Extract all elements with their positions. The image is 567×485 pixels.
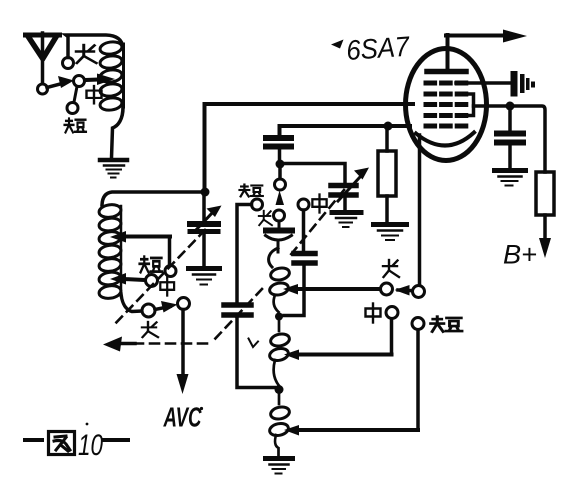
wire J1 to coil L2 top xyxy=(102,192,205,205)
wire S1a arm to 短 contact xyxy=(74,87,77,103)
U1 grid 3 (signal) xyxy=(426,102,466,107)
screen grids tie bracket xyxy=(464,94,474,116)
wire 长 contact to coil L1 top xyxy=(66,35,123,58)
node J5 xyxy=(506,102,515,111)
wire grid5 to shield ground xyxy=(456,81,511,85)
contact AVC takeoff xyxy=(178,298,190,310)
wire C2 to ground xyxy=(343,198,347,210)
S2 arm arrow xyxy=(276,191,285,206)
wire L2 bottom to arm S1b xyxy=(121,294,143,312)
oscillator coil L3 xyxy=(269,248,291,456)
contact 中 S3 xyxy=(386,307,398,319)
label 中 S2 xyxy=(312,194,326,212)
ground G1 xyxy=(100,160,127,178)
wire AVC lead xyxy=(181,310,185,377)
node J2 xyxy=(276,160,285,169)
wire arm to coil L1 tap arrow xyxy=(85,74,115,86)
switch S2 top contact xyxy=(275,168,286,190)
S1b arm arrow to AVC contact xyxy=(155,301,178,313)
variable capacitor C1 xyxy=(190,206,222,232)
contact 中 S1b xyxy=(146,275,158,287)
L2 tap1 arrow to 短 contact xyxy=(110,231,170,264)
label 中 S1a xyxy=(87,86,102,103)
ganged tuning dashed link A xyxy=(103,190,344,352)
B+ arrow xyxy=(539,238,551,258)
ink speck near AVC xyxy=(200,407,203,410)
svg-text:B+: B+ xyxy=(503,240,537,270)
ground G3 (C2) xyxy=(332,213,361,228)
node J1 tank junction xyxy=(201,188,210,197)
figure caption dash right xyxy=(104,438,128,442)
label 短 S3 xyxy=(431,317,462,332)
contact 中 S2 xyxy=(298,199,309,210)
svg-text:6SA7: 6SA7 xyxy=(345,31,411,66)
variable capacitor C1 stem xyxy=(202,194,206,221)
pointer tick at 6SA7 xyxy=(331,40,344,49)
wire C6 to J4 xyxy=(237,318,275,388)
cathode lead wire xyxy=(418,135,422,285)
L3 tap 短 wire xyxy=(284,330,418,436)
switch S1a pole contact xyxy=(38,84,48,94)
wire grid1 line (oscillator grid) xyxy=(280,126,411,135)
contact 短 (short wave) S1a xyxy=(67,103,78,114)
node J6 on grid1 line xyxy=(384,122,393,131)
capacitor C6 (SW padder) xyxy=(224,305,251,315)
label 短 S1a xyxy=(65,119,87,133)
wire 短 S2 to series padder C6 xyxy=(237,205,252,303)
label 长 S2 xyxy=(259,211,272,225)
node J3 xyxy=(275,313,283,321)
ground G4 (R1) xyxy=(374,225,407,241)
tube 6SA7 envelope U1 xyxy=(406,49,487,161)
contact 长 S3 xyxy=(381,283,393,295)
capacitor C7 (MW padder) xyxy=(294,254,315,264)
contact 短 S3 xyxy=(412,318,424,330)
AVC arrowhead xyxy=(177,374,189,394)
L3 tap 中 wire xyxy=(284,319,392,360)
U1 plate xyxy=(427,35,466,72)
antenna xyxy=(26,33,60,84)
cathode pole contact S3 xyxy=(413,286,425,298)
RF coil L2 xyxy=(98,203,122,299)
L3 tap 长 wire xyxy=(283,284,381,295)
U1 grid 5 (suppressor) xyxy=(426,81,466,86)
ganged tuning dashed link B xyxy=(112,230,205,327)
ground G5 (L3) xyxy=(266,459,293,474)
U1 cathode xyxy=(416,133,474,146)
label 长 S1a xyxy=(76,45,96,63)
switch S1b arm pivot xyxy=(142,304,155,317)
capacitor C5 (screen bypass) xyxy=(497,110,523,168)
label 短 S2 xyxy=(240,185,263,197)
trimmer capacitor C2 (osc tuning) xyxy=(331,168,369,202)
label 中 S3 xyxy=(366,304,381,323)
S3 arm arrow (cathode wiper) xyxy=(395,285,411,296)
small pointer mark xyxy=(249,339,259,348)
shield ground symbol xyxy=(511,71,536,97)
node J4 xyxy=(275,385,284,394)
wire grid3 line (tube signal grid) xyxy=(205,102,414,106)
padder capacitor C4 (curved plate) xyxy=(266,221,293,252)
S2 arm pivot xyxy=(274,210,285,221)
contact 短 S2 xyxy=(252,199,263,210)
wire screens to B+ branch xyxy=(474,106,546,172)
wire C1 to ground xyxy=(202,234,206,266)
ground G2 (C1) xyxy=(189,269,220,285)
figure caption 图 glyph xyxy=(49,432,75,455)
contact 长 (long wave) S1a xyxy=(63,58,74,69)
U1 grid 2 xyxy=(426,113,466,118)
U1 grid 4 xyxy=(426,92,466,97)
svg-text:AVC: AVC xyxy=(163,402,202,433)
wire C7 to J3 xyxy=(284,266,304,316)
switch S1a middle contact xyxy=(74,76,85,87)
svg-text:10: 10 xyxy=(78,429,103,462)
label 长 S3 xyxy=(383,260,399,277)
resistor R1 (osc grid leak) xyxy=(378,128,396,222)
capacitor C3 (osc grid coupling) xyxy=(266,138,291,160)
wire 中 S2 down to C7 xyxy=(302,210,306,250)
ground G6 (C5) xyxy=(495,171,526,186)
plate output arrow xyxy=(446,30,527,43)
label 长 S1b xyxy=(142,322,158,337)
L2 tap2 arrow to 中 contact xyxy=(110,273,145,285)
figure caption dash left xyxy=(25,438,42,442)
antenna coil L1 xyxy=(99,41,123,112)
switch S1a arm wiper arrow xyxy=(47,76,74,88)
wire J2 to trimmer C2 xyxy=(282,164,345,183)
wire L1 bottom to ground xyxy=(112,106,124,158)
wire left vertical to tank junction xyxy=(203,104,207,190)
label 中 S1b xyxy=(160,277,174,295)
resistor R2 (screen dropper) xyxy=(536,172,554,240)
label 短 S1b xyxy=(140,257,163,273)
ink speck above caption xyxy=(86,423,89,426)
contact 短 S1b xyxy=(165,266,176,277)
U1 grid 1 (oscillator) xyxy=(426,124,466,129)
